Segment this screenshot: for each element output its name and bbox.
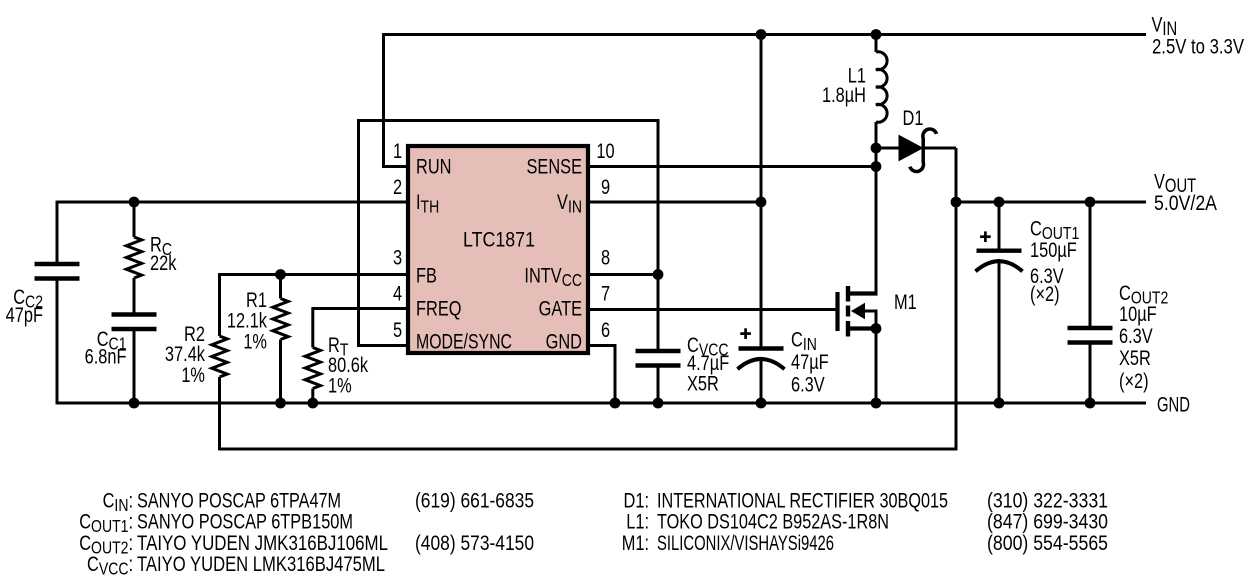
label R2 (184, 322, 205, 345)
label D1 (903, 106, 924, 129)
pin number 2 (393, 175, 402, 198)
svg-text:M1:: M1: (622, 531, 649, 554)
node ITH-RC junction (129, 197, 140, 208)
capacitor CVCC (657, 275, 660, 352)
svg-text:SANYO POSCAP 6TPB150M: SANYO POSCAP 6TPB150M (137, 511, 353, 534)
node CIN GND junction (756, 398, 767, 409)
label RC (150, 233, 172, 260)
svg-text:12.1k: 12.1k (227, 309, 268, 332)
node R1 top junction (275, 269, 286, 280)
wire RUN pin 1 riser (384, 33, 408, 166)
svg-text:X5R: X5R (687, 372, 719, 395)
svg-text:(847) 699-3430: (847) 699-3430 (987, 511, 1108, 534)
wire M1 source to GND (875, 329, 878, 404)
label M1 (894, 290, 917, 313)
wire GND rail (57, 402, 1146, 405)
svg-text:8: 8 (601, 246, 610, 269)
svg-text:L1:: L1: (626, 510, 649, 533)
wire MODE/SYNC to INTVCC link (359, 121, 659, 346)
node M1 GND junction (871, 398, 882, 409)
capacitor CIN (760, 202, 763, 349)
svg-text:TOKO DS104C2 B952AS-1R8N: TOKO DS104C2 B952AS-1R8N (657, 511, 889, 534)
node COUT1 top junction (994, 197, 1005, 208)
pin number 8 (601, 246, 610, 269)
node L1 top junction (871, 29, 882, 40)
pin 6 label GND (546, 330, 582, 353)
svg-text:TAIYO YUDEN JMK316BJ106ML: TAIYO YUDEN JMK316BJ106ML (137, 532, 388, 555)
node COUT1 GND junction (994, 398, 1005, 409)
node COUT2 GND junction (1085, 398, 1096, 409)
wire SENSE pin 10 (589, 165, 876, 168)
label L1 (848, 64, 866, 87)
svg-text:X5R: X5R (1119, 346, 1151, 369)
pin number 1 (393, 139, 402, 162)
svg-text:INTERNATIONAL RECTIFIER 30BQ01: INTERNATIONAL RECTIFIER 30BQ015 (657, 490, 948, 513)
resistor RC (133, 202, 136, 237)
pin 7 label GATE (539, 297, 582, 320)
resistor R2 (218, 273, 221, 336)
label COUT1 (1030, 217, 1079, 244)
wire CC2 top lead (56, 201, 59, 264)
svg-text:GND: GND (546, 330, 582, 353)
svg-text:3: 3 (393, 246, 402, 269)
svg-text:47pF: 47pF (6, 303, 43, 326)
parts list row L1 (626, 510, 649, 533)
svg-text:SENSE: SENSE (526, 155, 582, 178)
op-amp U1 LTC1871 IC body (408, 146, 588, 353)
wire VOUT rail (956, 201, 1146, 204)
svg-text:1.8µH: 1.8µH (822, 83, 866, 106)
svg-text:6: 6 (601, 318, 610, 341)
transistor M1 (838, 286, 878, 337)
svg-text:22k: 22k (150, 251, 177, 274)
svg-text:1%: 1% (243, 330, 267, 353)
svg-text:10: 10 (596, 139, 614, 162)
node CC1 GND junction (129, 398, 140, 409)
wire VIN pin 9 (589, 201, 761, 204)
wire GATE pin 7 (589, 308, 837, 311)
label RT (328, 333, 349, 360)
svg-text:GND: GND (1157, 393, 1190, 416)
svg-text:150µF: 150µF (1030, 238, 1077, 261)
svg-text:5: 5 (393, 318, 402, 341)
capacitor COUT2 (1089, 202, 1092, 328)
node RT bottom junction (307, 398, 318, 409)
svg-text:RUN: RUN (416, 155, 451, 178)
node INTVCC junction (653, 269, 664, 280)
capacitor COUT1 (998, 202, 1001, 251)
node VOUT label (1154, 170, 1196, 197)
node R1 bottom junction (275, 398, 286, 409)
pin number 6 (601, 318, 610, 341)
svg-text:(×2): (×2) (1030, 282, 1060, 305)
svg-text:7: 7 (601, 282, 610, 305)
label COUT2 (1119, 281, 1168, 308)
pin 10 label SENSE (526, 155, 582, 178)
svg-text:D1: D1 (903, 106, 924, 129)
svg-text:TAIYO YUDEN LMK316BJ475ML: TAIYO YUDEN LMK316BJ475ML (137, 553, 385, 576)
parts list row CIN (103, 489, 133, 516)
node SENSE junction (871, 161, 882, 172)
wire FB pin 3 (220, 273, 408, 276)
pin number 5 (393, 318, 402, 341)
node pin6 GND junction (610, 398, 621, 409)
parts list row D1 (624, 489, 649, 512)
svg-text:(310) 322-3331: (310) 322-3331 (987, 490, 1108, 513)
svg-text:1%: 1% (328, 374, 352, 397)
node D1 anode junction (871, 143, 882, 154)
svg-text:FB: FB (416, 264, 437, 287)
pin 9 label VIN (557, 190, 582, 217)
pin 2 label ITH (416, 190, 439, 217)
wire VOUT feedback bottom (220, 448, 957, 451)
node VIN rail junction (756, 29, 767, 40)
svg-text:6.3V: 6.3V (1119, 324, 1153, 347)
label CC2 (13, 285, 43, 312)
wire GND pin 6 (589, 346, 615, 404)
svg-text:SANYO POSCAP 6TPA47M: SANYO POSCAP 6TPA47M (137, 490, 341, 513)
resistor R1 (279, 275, 282, 299)
parts list row M1 (622, 531, 649, 554)
svg-text:5.0V/2A: 5.0V/2A (1154, 192, 1217, 215)
node COUT2 top junction (1085, 197, 1096, 208)
node CVCC GND junction (653, 398, 664, 409)
wire VIN riser (760, 35, 763, 203)
label CIN (791, 328, 817, 355)
svg-text:LTC1871: LTC1871 (463, 229, 535, 252)
svg-text:(408) 573-4150: (408) 573-4150 (415, 532, 534, 555)
label CVCC (687, 333, 729, 360)
svg-text:37.4k: 37.4k (165, 342, 206, 365)
wire INTVCC pin 8 (589, 273, 658, 276)
pin number 4 (393, 282, 402, 305)
svg-text:9: 9 (601, 175, 610, 198)
svg-text:2: 2 (393, 175, 402, 198)
wire ITH pin 2 (57, 201, 407, 204)
node VOUT rail start junction (951, 197, 962, 208)
wire CC2 bottom lead (56, 279, 59, 405)
svg-text:M1: M1 (894, 290, 917, 313)
wire M1 drain (875, 148, 878, 294)
wire FREQ pin 4 (313, 307, 407, 310)
plus sign CIN (740, 328, 751, 339)
svg-text:GATE: GATE (539, 297, 582, 320)
svg-text:4: 4 (393, 282, 402, 305)
wire VIN top rail (384, 33, 1147, 36)
svg-text:1%: 1% (181, 363, 205, 386)
pin number 9 (601, 175, 610, 198)
svg-text:6.3V: 6.3V (791, 373, 825, 396)
pin number 7 (601, 282, 610, 305)
svg-text:SILICONIX/VISHAYSi9426: SILICONIX/VISHAYSi9426 (657, 532, 834, 555)
svg-text:6.8nF: 6.8nF (85, 345, 127, 368)
node VIN pin junction (756, 197, 767, 208)
node M1 source junction (871, 323, 882, 334)
wire D1 cathode to VOUT (955, 148, 958, 450)
pin 8 label INTVCC (524, 264, 582, 291)
svg-text:D1:: D1: (624, 489, 649, 512)
svg-text:1: 1 (393, 139, 402, 162)
wire CC1 bottom lead (133, 329, 136, 403)
svg-text:(800) 554-5565: (800) 554-5565 (987, 532, 1108, 555)
svg-text:FREQ: FREQ (416, 297, 462, 320)
svg-text:10µF: 10µF (1119, 302, 1157, 325)
pin 1 label RUN (416, 155, 451, 178)
svg-text:MODE/SYNC: MODE/SYNC (416, 331, 512, 354)
svg-text:47µF: 47µF (791, 350, 829, 373)
capacitor CC1 (112, 315, 157, 330)
pin number 3 (393, 246, 402, 269)
resistor RT (311, 307, 314, 347)
svg-text:(619) 661-6835: (619) 661-6835 (415, 490, 534, 513)
pin 4 label FREQ (416, 297, 462, 320)
capacitor CC2 (35, 264, 80, 279)
parts list row COUT2 (79, 531, 133, 558)
svg-text:(×2): (×2) (1119, 369, 1149, 392)
svg-text:2.5V to 3.3V: 2.5V to 3.3V (1152, 36, 1244, 59)
label CC1 (97, 327, 127, 354)
plus sign COUT1 (980, 231, 991, 242)
pin 3 label FB (416, 264, 437, 287)
node VIN label (1152, 13, 1178, 40)
label R1 (246, 288, 267, 311)
pin number 10 (596, 139, 614, 162)
inductor L1 (875, 35, 878, 53)
diode D1 (876, 147, 899, 150)
parts list row CVCC (87, 552, 133, 579)
parts list row COUT1 (79, 510, 133, 537)
